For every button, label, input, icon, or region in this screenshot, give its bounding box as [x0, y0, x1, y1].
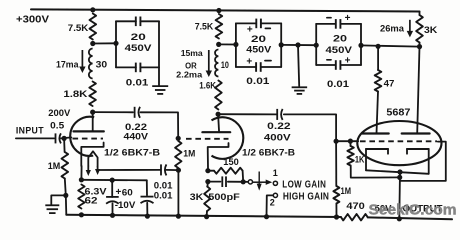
resistor R7 7.5K (stage2 plate supply): [195, 14, 223, 39]
svg-text:7.5K: 7.5K: [68, 23, 89, 34]
watermark SeekIC.com: [369, 202, 457, 219]
node B (7.5K/10 junction): [216, 42, 221, 47]
svg-text:26ma: 26ma: [380, 23, 405, 34]
resistor R11 1K (grid stopper to cathode): [347, 141, 399, 178]
tube V2 1/2 6BK7-B (stage2 triode): [186, 114, 295, 168]
svg-text:62: 62: [85, 195, 98, 206]
node 1M bottom / ground tie: [63, 193, 68, 198]
node 47 top: [376, 44, 381, 49]
wire to input ground: [51, 195, 66, 204]
capacitor C5 0.01 (cathode to rail): [141, 180, 174, 218]
resistor R4 470 (in bottom rail): [341, 201, 368, 221]
capacitor C4 60uF -10V (cathode bypass electrolytic): [106, 178, 136, 218]
svg-text:HIGH GAIN: HIGH GAIN: [283, 191, 329, 202]
svg-text:15ma: 15ma: [181, 48, 203, 58]
wire mid ground stem: [298, 45, 299, 86]
svg-text:1: 1: [273, 168, 278, 178]
wire node B to C7 block: [219, 43, 236, 45]
label LOW GAIN: [282, 179, 326, 190]
label 5687: [386, 108, 410, 119]
svg-text:17ma: 17ma: [56, 59, 79, 70]
svg-text:10: 10: [221, 60, 229, 71]
svg-text:-10V: -10V: [115, 200, 136, 211]
capacitor C3 0.5 (input): [50, 121, 65, 144]
wire coupling to V3 grid: [284, 114, 336, 141]
svg-text:1.8K: 1.8K: [63, 89, 87, 100]
label 200V: [48, 108, 71, 119]
svg-text:1/2 6BK7-B: 1/2 6BK7-B: [104, 147, 160, 158]
resistor R6 1M (stage2 grid leak): [175, 136, 195, 168]
capacitor C2 0.22 440V (interstage coupling): [124, 107, 149, 143]
svg-text:1K: 1K: [355, 155, 365, 166]
svg-text:3K: 3K: [424, 25, 437, 36]
svg-text:470: 470: [346, 201, 364, 212]
capacitor block C7: 20uF 450V electrolytics: [233, 19, 284, 87]
node stage2 cathode: [205, 168, 210, 173]
svg-text:450V: 450V: [246, 45, 272, 56]
svg-text:+300V: +300V: [16, 13, 49, 25]
svg-text:+: +: [345, 56, 351, 67]
node input grid: [61, 136, 71, 141]
svg-text:20: 20: [333, 34, 347, 45]
resistor R3 1M (input grid leak): [48, 138, 68, 195]
svg-text:INPUT: INPUT: [16, 125, 44, 136]
plate lead V3 section B: [402, 47, 430, 134]
wire bottom rail (left ground section): [66, 215, 341, 217]
wire cathode bus V3: [366, 170, 429, 174]
resistor R5 62 (cathode bias): [78, 185, 107, 218]
svg-text:0.01: 0.01: [246, 76, 270, 87]
label +300V: [16, 13, 49, 25]
svg-text:500pF: 500pF: [208, 192, 240, 203]
inductor L1 30 (stage1 decoupling choke): [89, 49, 107, 79]
svg-text:+: +: [246, 56, 252, 67]
svg-text:2.2ma: 2.2ma: [176, 69, 202, 79]
svg-text:+: +: [116, 187, 122, 198]
svg-text:150: 150: [223, 157, 239, 168]
current arrow 15ma/2.2ma: [176, 48, 212, 79]
label HIGH GAIN: [283, 191, 329, 202]
ground (block C1): [152, 86, 168, 94]
capacitor C6 0.01 (heater/cathode coupling): [98, 164, 179, 191]
svg-text:450V: 450V: [125, 43, 153, 54]
label contact 1: [273, 168, 278, 178]
svg-text:0.01: 0.01: [327, 79, 350, 90]
wire grid return V3 section B: [400, 142, 446, 181]
switch S1 gain select: [241, 172, 278, 198]
svg-text:0.5: 0.5: [50, 121, 65, 132]
ground (input): [45, 205, 59, 213]
label contact 2: [270, 197, 275, 207]
node stage2 B+ tap: [216, 8, 221, 13]
capacitor C10 500pF (cathode bypass): [205, 176, 243, 203]
svg-text:3K: 3K: [190, 192, 204, 203]
svg-text:0.01: 0.01: [126, 77, 149, 88]
cathode V3 section B: [407, 149, 429, 174]
plate lead V3 section A: [362, 92, 389, 134]
wire block C7 to mid ground: [281, 42, 316, 47]
wire stage1 cathode bus: [81, 166, 146, 180]
resistor R2 1.8K: [63, 82, 96, 107]
current arrow 26ma: [380, 20, 413, 38]
svg-text:0.01: 0.01: [154, 191, 173, 202]
capacitor block C8: 20uF 450V electrolytics (output supply): [314, 13, 364, 90]
node cathode tap: [397, 169, 403, 221]
svg-text:SeekIC.com: SeekIC.com: [369, 202, 457, 219]
grid dashed line V3: [360, 140, 437, 142]
resistor R10 47 (plate stopper): [375, 46, 395, 91]
node A (7.5K/30 junction): [90, 41, 95, 46]
resistor R8 1.6K: [199, 81, 222, 110]
svg-text:1.6K: 1.6K: [199, 81, 216, 92]
svg-text:5687: 5687: [386, 108, 410, 119]
resistor R9 3K (output plate load): [416, 12, 437, 47]
svg-text:0.01: 0.01: [154, 180, 173, 191]
wire output B+ node: [361, 45, 420, 46]
node stage1 B+ tap: [90, 7, 95, 12]
svg-text:30: 30: [96, 60, 108, 71]
svg-text:400V: 400V: [264, 133, 291, 144]
inductor L2 10 (stage2 decoupling choke): [215, 50, 229, 77]
node stage2 plate: [216, 112, 221, 117]
ground (mid, filter): [292, 87, 308, 94]
wire stage1 plate to coupling cap: [93, 111, 133, 113]
resistor R14 1M (V3 grid leak): [333, 141, 351, 219]
svg-text:20: 20: [131, 32, 146, 43]
svg-text:200V: 200V: [48, 108, 71, 119]
wire +300V top rail: [31, 9, 420, 11]
resistor R12 150 (cathode): [208, 157, 243, 182]
svg-text:440V: 440V: [124, 132, 149, 143]
svg-text:1M: 1M: [48, 161, 61, 172]
wire switch contact 2 to rail: [264, 195, 273, 219]
node stage1 plate (200V): [90, 110, 95, 115]
svg-text:60: 60: [122, 188, 133, 199]
resistor R13 3K (stage2 cathode): [190, 182, 210, 220]
heater with arrows (V1): [86, 151, 101, 176]
svg-text:+: +: [345, 13, 351, 24]
svg-text:20: 20: [251, 34, 266, 45]
wire coupling cap to stage2 grid node: [141, 112, 179, 138]
wire node A to C1 block: [93, 42, 116, 44]
node 3K bottom: [417, 44, 422, 49]
wire ground node down to bottom rail: [65, 195, 68, 214]
tube V1 1/2 6BK7-B (stage1 triode): [70, 112, 160, 166]
resistor R1 7.5K (stage1 plate supply): [68, 14, 96, 40]
wire input line: [16, 137, 54, 139]
label 50V OUTPUT: [375, 203, 443, 214]
svg-text:1M: 1M: [341, 186, 352, 197]
svg-text:1/2 6BK7-B: 1/2 6BK7-B: [242, 147, 295, 158]
wire 1M to bottom rail: [176, 170, 181, 219]
node stage1 cathode: [79, 177, 84, 182]
node stage2 grid return: [176, 168, 181, 173]
svg-text:7.5K: 7.5K: [195, 21, 214, 31]
svg-text:47: 47: [384, 79, 395, 90]
cathode V3 section A: [366, 149, 388, 170]
svg-text:450V: 450V: [326, 45, 353, 56]
wire bottom rail (output section): [368, 217, 452, 219]
label INPUT: [16, 125, 44, 136]
svg-text:LOW GAIN: LOW GAIN: [282, 179, 326, 190]
svg-text:0.22: 0.22: [267, 121, 290, 132]
wire grid V3 input: [334, 139, 359, 144]
capacitor C9 0.22 400V (coupling): [218, 109, 291, 144]
tube V3 5687 (dual triode envelope): [357, 121, 441, 165]
current arrow 17ma: [56, 50, 86, 73]
svg-text:1M: 1M: [183, 148, 195, 159]
capacitor block C1: 20uF 450V + 0.01 to ground: [113, 17, 159, 89]
svg-text:2: 2: [270, 197, 275, 207]
